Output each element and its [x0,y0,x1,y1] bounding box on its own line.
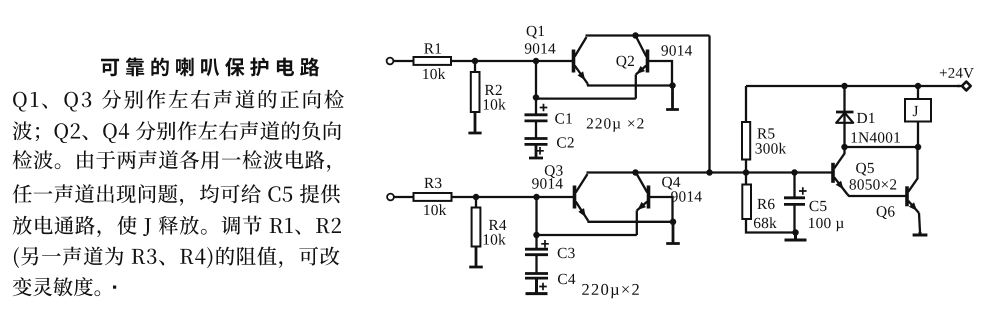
resistor R6 [742,185,751,220]
node D1 top on rail [841,83,848,90]
transistor Q5 [833,154,848,195]
node Q4 collector on line [632,169,639,176]
wire Q2 base [649,61,672,86]
value 9014 of Q1 [525,43,556,53]
value 10k of R1 [423,68,445,79]
wire +24V rail [746,85,963,87]
node C5 top on main line [791,169,798,176]
value 68k of R6 [754,217,777,228]
plus of C5 [799,187,807,195]
plus of C3 [541,240,549,248]
text line 7 [13,277,101,296]
label D1 [857,113,875,123]
transistor Q6 [907,179,919,214]
plus of C2 [536,147,544,155]
node R1-R2 junction [472,58,479,65]
label J [913,106,918,116]
label R3 [424,178,441,188]
value 10k of R3 [424,204,446,215]
label Q1 [527,26,545,39]
text line 6 [14,247,339,269]
value 9014 of Q3 [532,178,563,188]
wire Q5 emitter to Q6 base [848,195,907,197]
ground below C5 [785,233,807,241]
label R1 [424,43,441,53]
node D1 bottom [841,144,848,151]
ground below R2 [468,112,481,133]
value 8050x2 of Q5 [850,179,897,189]
text line 3 [13,150,331,171]
node Q3 base [533,194,540,201]
ground below Q6 [913,232,928,235]
wire emitter return to C3 node [537,234,637,236]
text line 2 [13,121,341,143]
wire Q6 emitter down [919,213,920,232]
resistor R2 [471,72,480,112]
capacitor C5 [784,198,805,205]
value 1N4001 of D1 [852,132,900,142]
ground below C2 [529,145,543,158]
wire input L to R1 [393,60,413,62]
text line 1 [13,90,344,112]
label Q5 [856,163,874,176]
wire collector rail main line [587,171,833,173]
capacitor C2 [525,139,548,145]
resistor R1 [414,57,452,65]
capacitor C4 [525,274,548,279]
wire R5 to main line [745,160,747,173]
wire D1 top lead [843,86,845,112]
wire C1 top lead [535,98,537,114]
wire rail down to main node line [708,36,710,173]
resistor R4 [472,208,481,247]
period after last text line [113,286,116,289]
label R5 [757,128,774,138]
wire C1-C2 [535,121,537,138]
node Q2 collector on rail [632,32,639,39]
label +24V [940,68,974,78]
wire Q4 base [650,197,673,222]
wire R5 column [745,86,747,122]
diode D1 [836,112,854,147]
transistor Q2 [636,38,648,75]
label R6 [757,199,774,209]
terminal input R [387,194,394,201]
wire Q1 emitter line [588,84,674,86]
node main line - rail riser [706,169,713,176]
wire collector rail Q1Q2 [586,34,710,36]
wire C3-C4 [535,255,537,273]
label Q2 [616,56,634,69]
value 100u of C5 [809,218,844,232]
node R6-C5 ground [792,229,799,236]
plus of C1 [540,104,548,112]
wire J top lead [917,86,919,99]
wire node to R4 [475,197,477,208]
node Q2 base-ground [669,82,676,89]
wire Q4 emitter down-left [636,211,638,236]
label C4 [558,274,575,284]
label R2 [485,85,502,95]
terminal +24V [962,82,971,91]
node C3 top [533,232,540,239]
transistor Q1 [574,37,588,84]
plus of C4 [539,283,547,291]
relay coil J [905,99,931,122]
resistor R3 [414,193,452,201]
label Q3 [545,165,563,178]
label C5 [810,201,827,211]
wire Q1 base node down [535,61,537,97]
terminal input L [387,58,394,65]
value 9014 of Q4 [671,191,702,201]
label Q6 [877,206,895,219]
ground below Q2 base [666,86,679,110]
value 10k of R4 [484,234,506,245]
ground below R4 [469,247,483,268]
ground below Q4 base [666,222,680,244]
label R4 [489,220,506,230]
label Q4 [662,177,680,190]
wire R1 to Q1 base [451,60,573,62]
wire Q3 base node down [535,197,537,235]
wire node to R2 [474,61,476,72]
value 9014 of Q2 [661,45,692,55]
wire input R to R3 [394,196,414,198]
node J top on rail [915,83,922,90]
ground below C4 [526,278,548,293]
wire R6 top lead [745,173,747,185]
label C3 [558,248,575,258]
text line 5 [13,216,341,238]
label C2 [557,137,574,147]
node R3-R4 junction [473,194,480,201]
resistor R5 [742,122,750,160]
wire Q6 collector up [916,147,918,179]
node Q1 base [533,58,540,65]
node R5-R6 on main line [743,169,750,176]
wire emitter return to C1 node [536,97,636,99]
capacitor C1 [525,115,548,121]
node J bottom [915,144,922,151]
wire C5 top lead [793,173,795,198]
title 可靠的喇叭保护电路 [101,58,319,77]
wire rail to terminal [957,85,960,87]
value 10k of R2 [484,99,506,110]
wire R6 bottom to ground node [746,219,796,233]
wire J bottom lead [917,122,919,148]
node Q4 base-ground [670,219,677,226]
transistor Q4 [637,175,649,211]
wire C3 top lead [535,235,537,249]
wire D1 bottom link [845,146,919,148]
text line 4 [13,184,341,205]
wire R3 to Q3 base [452,196,574,198]
capacitor C3 [525,249,548,255]
wire Q2 emitter down-left [635,75,637,99]
node C1 top [533,94,540,101]
value 300k of R5 [756,143,787,154]
value 220u x2 bottom [582,284,639,299]
wire C5 bottom lead [793,205,795,233]
wire Q3 emitter line [588,221,672,222]
transistor Q3 [575,174,589,221]
value 220u x2 top [587,118,644,132]
label C1 [555,113,572,123]
wire Q5 collector up [843,147,845,154]
